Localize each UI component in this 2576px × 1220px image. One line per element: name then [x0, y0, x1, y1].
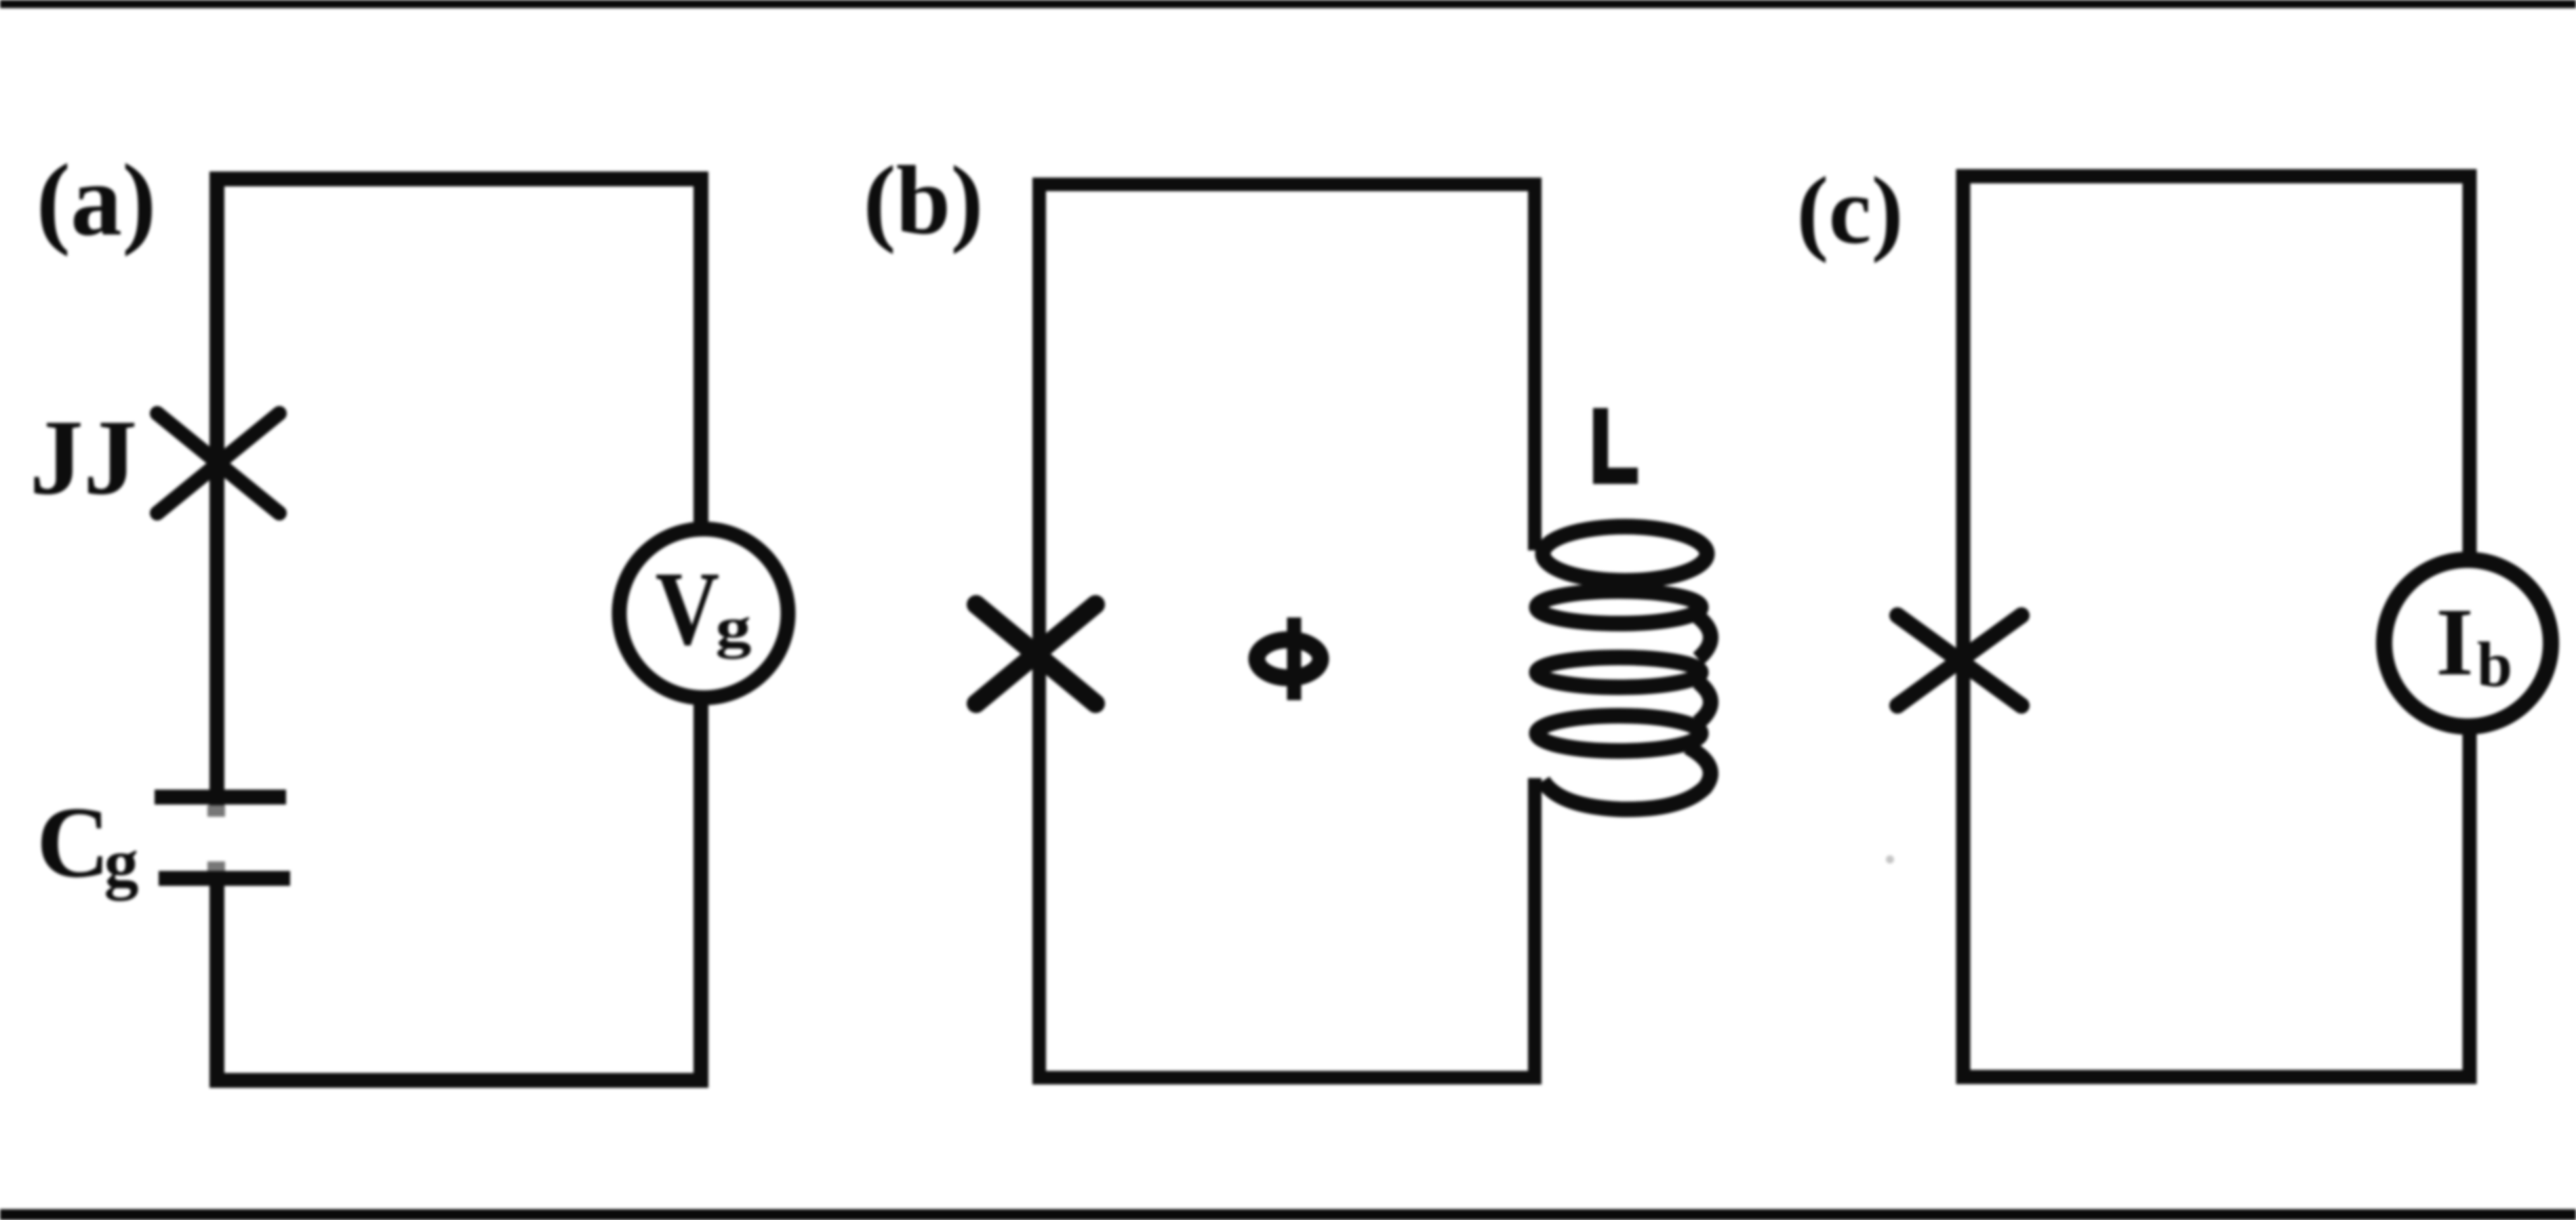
- svg-text:g: g: [715, 595, 751, 659]
- wire stub below top plate: [207, 805, 225, 817]
- Josephson junction cross (c): [1897, 615, 2021, 706]
- svg-text:(c): (c): [1796, 157, 1904, 264]
- flux label Phi bar: [1287, 617, 1302, 700]
- flux label Phi ring: [1257, 640, 1321, 678]
- label L: [1593, 408, 1638, 484]
- coil gap mask: [1518, 550, 1551, 778]
- voltage source V_g circle: [620, 529, 788, 698]
- svg-text:b: b: [2477, 630, 2512, 700]
- svg-text:I: I: [2436, 588, 2474, 695]
- svg-text:(b): (b): [863, 146, 983, 255]
- svg-text:C: C: [37, 786, 110, 899]
- wire loop (a): [217, 179, 701, 1080]
- svg-text:(a): (a): [36, 143, 156, 257]
- capacitor C_g bottom plate: [159, 871, 290, 886]
- Josephson junction JJ cross (a): [157, 413, 279, 513]
- bottom border bar: [0, 1209, 2576, 1220]
- svg-text:V: V: [656, 550, 720, 667]
- svg-text:JJ: JJ: [30, 398, 138, 517]
- inductor L coil: [1537, 527, 1711, 809]
- top border bar: [0, 0, 2576, 8]
- stray dot: [1886, 855, 1894, 863]
- Josephson junction cross (b): [976, 605, 1095, 704]
- wire loop (b): [1039, 184, 1535, 1078]
- capacitor C_g top plate: [155, 790, 286, 805]
- wire stub above bottom plate: [207, 861, 225, 872]
- capacitor gap mask: [200, 805, 234, 871]
- wire loop (c): [1963, 176, 2470, 1077]
- svg-text:g: g: [104, 825, 139, 901]
- current source I_b circle: [2384, 560, 2551, 727]
